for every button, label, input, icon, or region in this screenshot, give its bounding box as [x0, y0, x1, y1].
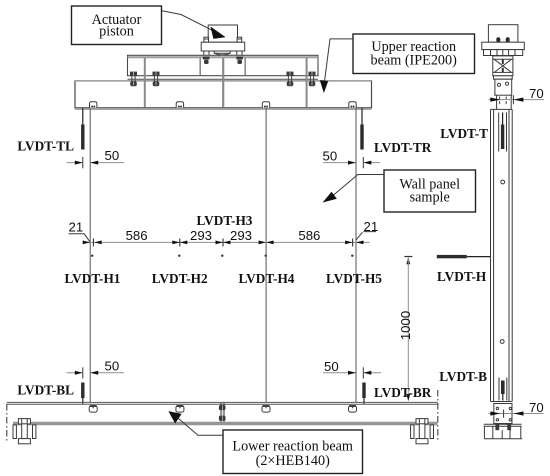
svg-text:sample: sample — [410, 190, 450, 206]
dimension 21 left — [69, 220, 91, 243]
svg-text:LVDT-H2: LVDT-H2 — [152, 271, 208, 286]
upper reaction beam IPE200 (front view) — [128, 55, 319, 79]
side view flange — [482, 42, 525, 49]
dimension 50 top-right — [323, 149, 381, 169]
center hold-down bolt — [219, 403, 226, 423]
side view plate under beam — [494, 76, 513, 79]
dimension 21 right — [356, 219, 378, 240]
svg-text:50: 50 — [105, 359, 120, 374]
svg-text:1000: 1000 — [398, 311, 413, 340]
LVDT-T sensor (side view) — [499, 113, 507, 152]
top clamp 3 — [262, 102, 269, 108]
svg-text:293: 293 — [230, 228, 252, 243]
side view column base line — [491, 401, 513, 403]
anchor bolt right — [411, 419, 434, 444]
splice bolt pair left — [130, 72, 160, 87]
anchor bolt left — [13, 419, 36, 444]
label box: Actuator piston — [72, 6, 162, 45]
dimension 50 bottom-left — [67, 359, 125, 379]
svg-text:70: 70 — [529, 86, 544, 101]
main horizontal dimension chain — [83, 228, 370, 246]
svg-text:LVDT-TR: LVDT-TR — [374, 140, 432, 155]
leader arrow to upper beam — [321, 39, 354, 92]
top clamp 2 — [176, 102, 183, 108]
right centerline (dash-dot) — [437, 390, 439, 442]
svg-text:beam (IPE200): beam (IPE200) — [371, 53, 458, 69]
leader arrow to lower beam — [169, 412, 223, 436]
side view base block — [494, 404, 512, 424]
LVDT-BR sensor — [362, 383, 365, 405]
label box: Upper reaction beam (IPE200) — [353, 34, 475, 74]
svg-text:piston: piston — [99, 24, 134, 40]
actuator hold-down nuts on beam — [203, 57, 243, 65]
svg-text:586: 586 — [298, 228, 320, 243]
svg-text:LVDT-H1: LVDT-H1 — [65, 271, 121, 286]
svg-text:70: 70 — [529, 400, 544, 415]
bottom clamp 4 — [349, 406, 357, 412]
side view clamp block — [495, 79, 512, 95]
top clamp 1 — [90, 102, 97, 108]
dimension 70 bottom — [489, 400, 544, 418]
svg-text:21: 21 — [69, 220, 84, 235]
svg-text:LVDT-T: LVDT-T — [440, 126, 488, 141]
LVDT-H measurement dots — [91, 255, 353, 257]
wall panel left edge — [89, 108, 91, 402]
bottom clamp 3 — [262, 406, 270, 412]
side view piston bolts — [496, 37, 509, 42]
LVDT-H sensor (side view) — [437, 255, 491, 258]
leader arrow to wall panel — [324, 175, 384, 202]
LVDT-B sensor (side view) — [499, 378, 507, 401]
svg-text:LVDT-B: LVDT-B — [439, 369, 487, 384]
splice bolt pair right — [287, 72, 316, 87]
side view column — [491, 109, 513, 401]
side view HEB140 end section — [484, 424, 523, 439]
side view wall neck — [497, 95, 512, 109]
column hole top — [501, 180, 505, 184]
lower beam top lines — [7, 402, 438, 404]
left centerline (dash-dot) — [6, 404, 8, 442]
dimension 50 bottom-right — [323, 359, 381, 379]
leader arrow to actuator piston — [162, 11, 225, 39]
svg-text:50: 50 — [324, 359, 339, 374]
wall panel joint — [265, 108, 267, 402]
spreader beam (wide upper beam, front view) — [75, 58, 372, 109]
label box: Wall panel sample — [384, 170, 476, 212]
side view piston box — [488, 25, 518, 43]
svg-text:LVDT-TL: LVDT-TL — [17, 139, 74, 154]
dimension 1000 vertical — [398, 257, 413, 402]
actuator piston assembly (front view) — [201, 25, 245, 56]
wall panel right edge — [355, 108, 357, 402]
LVDT-BL sensor — [81, 383, 84, 405]
svg-text:LVDT-H: LVDT-H — [437, 269, 487, 284]
svg-text:LVDT-BL: LVDT-BL — [17, 383, 74, 398]
side view IPE200 end section — [493, 56, 513, 76]
dimension 70 top — [489, 86, 545, 104]
bottom clamp 1 — [89, 406, 97, 412]
lower reaction beam (thick) — [13, 422, 438, 425]
label box: Lower reaction beam — [223, 430, 363, 474]
svg-text:LVDT-H4: LVDT-H4 — [239, 271, 295, 286]
LVDT-TR sensor — [360, 108, 363, 149]
svg-text:(2×HEB140): (2×HEB140) — [256, 453, 330, 469]
svg-text:50: 50 — [323, 149, 338, 164]
svg-text:LVDT-H5: LVDT-H5 — [326, 271, 382, 286]
top clamp 4 — [349, 102, 356, 108]
svg-text:293: 293 — [190, 228, 212, 243]
LVDT-TL sensor — [81, 108, 84, 149]
svg-text:50: 50 — [105, 148, 120, 163]
svg-text:LVDT-BR: LVDT-BR — [374, 385, 432, 400]
svg-text:586: 586 — [126, 228, 148, 243]
side view notched plate — [484, 50, 523, 56]
dimension 50 top-left — [67, 148, 125, 168]
column hole bottom — [500, 340, 504, 344]
bottom clamp 2 — [176, 406, 184, 412]
svg-text:LVDT-H3: LVDT-H3 — [197, 213, 253, 228]
